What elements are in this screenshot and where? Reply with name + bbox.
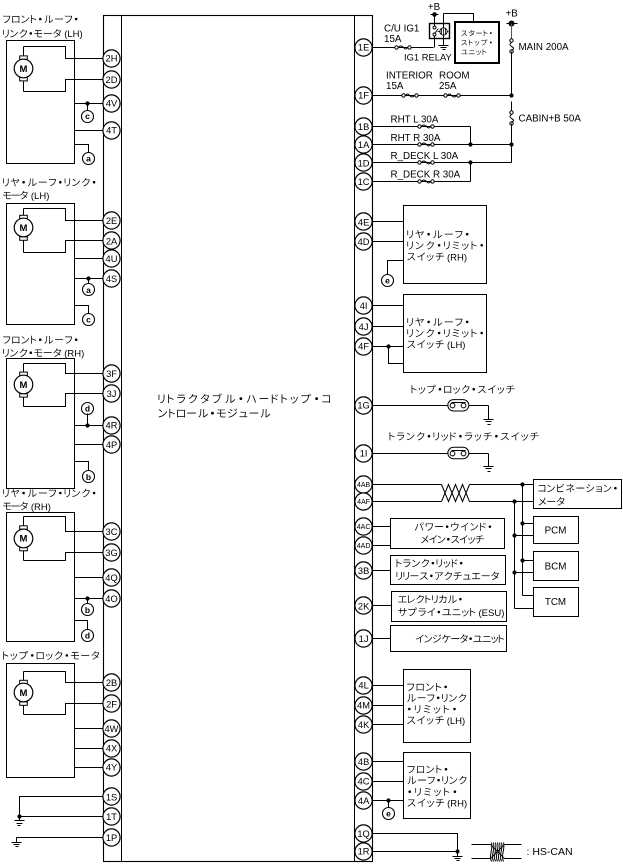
svg-text:+B: +B: [428, 2, 441, 13]
svg-text:4C: 4C: [358, 777, 370, 787]
svg-text:1J: 1J: [359, 634, 369, 644]
svg-text:R_DECK R 30A: R_DECK R 30A: [391, 169, 461, 180]
svg-text:4V: 4V: [106, 99, 118, 109]
svg-text:1T: 1T: [106, 812, 117, 822]
svg-text:1F: 1F: [358, 91, 369, 101]
svg-text:(RH): (RH): [447, 252, 467, 263]
svg-text:(ESU): (ESU): [479, 608, 505, 619]
svg-text:(LH): (LH): [447, 716, 465, 727]
svg-text:2D: 2D: [106, 75, 118, 85]
svg-text:15A: 15A: [384, 34, 402, 45]
svg-text:1B: 1B: [358, 122, 369, 132]
svg-text:4J: 4J: [359, 322, 369, 332]
svg-text:4AD: 4AD: [357, 543, 371, 550]
svg-text:: HS-CAN: : HS-CAN: [527, 846, 573, 858]
svg-text:c: c: [85, 111, 90, 121]
svg-text:BCM: BCM: [545, 562, 567, 573]
svg-text:RHT R 30A: RHT R 30A: [391, 133, 441, 144]
svg-text:1P: 1P: [106, 833, 117, 843]
svg-text:4K: 4K: [358, 720, 370, 730]
svg-text:CABIN+B 50A: CABIN+B 50A: [519, 113, 582, 124]
svg-text:2F: 2F: [106, 699, 117, 709]
svg-text:4T: 4T: [106, 126, 117, 136]
svg-text:4AB: 4AB: [357, 482, 371, 489]
svg-text:4M: 4M: [357, 700, 370, 710]
svg-text:4O: 4O: [105, 594, 117, 604]
svg-text:RHT L 30A: RHT L 30A: [391, 115, 439, 126]
svg-text:2A: 2A: [106, 236, 118, 246]
svg-text:M: M: [20, 380, 28, 391]
svg-text:4R: 4R: [106, 421, 118, 431]
svg-text:1C: 1C: [358, 177, 370, 187]
svg-text:3J: 3J: [107, 389, 117, 399]
svg-text:c: c: [86, 314, 91, 324]
svg-text:1R: 1R: [358, 846, 370, 856]
svg-text:4W: 4W: [105, 724, 119, 734]
svg-text:1D: 1D: [358, 158, 370, 168]
svg-text:e: e: [385, 275, 390, 285]
svg-text:1I: 1I: [360, 448, 368, 458]
svg-text:M: M: [20, 688, 28, 699]
svg-text:MAIN 200A: MAIN 200A: [519, 42, 570, 53]
svg-text:R_DECK L 30A: R_DECK L 30A: [391, 151, 459, 162]
svg-text:1A: 1A: [358, 140, 370, 150]
svg-text:3C: 3C: [106, 527, 118, 537]
svg-text:4B: 4B: [358, 757, 369, 767]
svg-text:4Y: 4Y: [106, 763, 117, 773]
svg-text:2H: 2H: [106, 54, 118, 64]
svg-text:1S: 1S: [106, 792, 117, 802]
svg-text:4F: 4F: [358, 341, 369, 351]
svg-text:3F: 3F: [106, 369, 117, 379]
svg-text:PCM: PCM: [545, 526, 567, 537]
svg-text:4D: 4D: [358, 237, 370, 247]
svg-text:(RH): (RH): [447, 798, 467, 809]
svg-text:(LH): (LH): [64, 29, 82, 40]
svg-text:e: e: [386, 809, 391, 819]
svg-text:4X: 4X: [106, 744, 117, 754]
svg-text:b: b: [85, 605, 90, 615]
svg-text:(RH): (RH): [31, 502, 51, 513]
svg-text:(LH): (LH): [31, 191, 49, 202]
svg-text:d: d: [85, 631, 90, 641]
svg-text:3G: 3G: [105, 548, 117, 558]
svg-text:1G: 1G: [357, 401, 369, 411]
svg-text:4S: 4S: [106, 274, 117, 284]
svg-text:1Q: 1Q: [357, 829, 369, 839]
svg-text:a: a: [86, 285, 91, 295]
svg-text:15A: 15A: [386, 81, 404, 92]
svg-text:4AF: 4AF: [357, 499, 370, 506]
svg-text:M: M: [20, 223, 28, 234]
svg-text:INTERIOR: INTERIOR: [386, 71, 433, 82]
svg-text:(LH): (LH): [447, 340, 465, 351]
svg-text:TCM: TCM: [545, 597, 566, 608]
svg-text:3B: 3B: [358, 566, 369, 576]
svg-text:a: a: [86, 154, 91, 164]
svg-text:4L: 4L: [358, 681, 368, 691]
svg-text:IG1 RELAY: IG1 RELAY: [404, 51, 453, 62]
svg-text:4P: 4P: [106, 440, 117, 450]
svg-text:d: d: [85, 403, 90, 413]
svg-text:(RH): (RH): [64, 349, 84, 360]
svg-text:4U: 4U: [106, 254, 118, 264]
svg-text:2E: 2E: [106, 216, 117, 226]
svg-text:25A: 25A: [439, 81, 457, 92]
svg-text:2B: 2B: [106, 678, 117, 688]
svg-text:C/U IG1: C/U IG1: [384, 24, 419, 35]
svg-text:2K: 2K: [358, 601, 370, 611]
svg-text:4A: 4A: [358, 796, 370, 806]
svg-text:M: M: [20, 64, 28, 75]
svg-text:ROOM: ROOM: [439, 71, 469, 82]
svg-text:4I: 4I: [360, 301, 368, 311]
svg-text:4AC: 4AC: [357, 524, 371, 531]
svg-text:b: b: [86, 472, 91, 482]
svg-text:1E: 1E: [358, 43, 369, 53]
svg-text:4Q: 4Q: [105, 573, 117, 583]
svg-text:4E: 4E: [358, 217, 369, 227]
svg-text:+B: +B: [506, 8, 519, 19]
svg-text:M: M: [20, 534, 28, 545]
